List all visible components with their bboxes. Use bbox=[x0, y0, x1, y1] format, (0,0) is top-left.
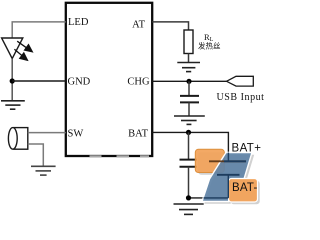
wire tint over logo bbox=[204, 153, 229, 198]
ground G5 (below battery) bbox=[174, 204, 204, 214]
node junction LED/GND bbox=[10, 78, 15, 83]
wire CHG pin to USB connector bbox=[152, 80, 226, 82]
node junction CHG/C1 bbox=[186, 79, 191, 84]
USB input connector J1 bbox=[227, 76, 254, 86]
wire node to capacitor C2 bbox=[188, 132, 190, 159]
watermark orange square 2 bbox=[229, 179, 258, 203]
ground G2 (below switch) bbox=[31, 166, 56, 175]
LED emission arrow 2 bbox=[14, 49, 27, 60]
svg-text:LED: LED bbox=[68, 17, 89, 28]
node junction BAT/C2 bbox=[186, 130, 191, 135]
IC box U1 bbox=[66, 3, 152, 156]
svg-text:GND: GND bbox=[68, 76, 91, 87]
capacitor C2 bbox=[180, 160, 198, 167]
battery plate tint over logo bbox=[209, 161, 246, 175]
svg-text:CHG: CHG bbox=[127, 76, 150, 87]
node junction C2/battery/ground bbox=[186, 195, 191, 200]
svg-text:BAT: BAT bbox=[128, 129, 148, 140]
ground G3 (below resistor) bbox=[177, 63, 200, 72]
svg-text:SW: SW bbox=[68, 129, 84, 140]
svg-text:USB Input: USB Input bbox=[217, 92, 265, 103]
resistor RL bbox=[184, 30, 193, 54]
wire switch lower terminal to ground bbox=[28, 144, 44, 166]
watermark logo shadow bbox=[198, 152, 260, 204]
wire capacitor C2 to lower node bbox=[188, 167, 190, 198]
wire battery bottom to lower node bbox=[189, 175, 229, 198]
battery BT1 top plate bbox=[209, 160, 246, 162]
watermark orange square 1 bbox=[195, 149, 224, 172]
wire capacitor C1 to ground bbox=[188, 102, 190, 116]
wire LED pin to LED anode bbox=[12, 22, 66, 38]
ground G4 (below C1) bbox=[174, 116, 205, 124]
svg-text:BAT-: BAT- bbox=[232, 182, 258, 194]
ground G1 (below LED) bbox=[1, 101, 25, 109]
wire BAT pin to battery bbox=[152, 132, 228, 161]
LED D1 triangle bbox=[2, 38, 23, 59]
wire gray dashes on box bottom edge bbox=[90, 155, 150, 157]
wire AT pin to resistor bbox=[152, 22, 188, 30]
capacitor C1 bbox=[180, 96, 199, 103]
wire node to capacitor C1 bbox=[188, 81, 190, 96]
wire resistor to ground bbox=[188, 54, 190, 63]
watermark blue Z bbox=[202, 153, 252, 202]
wire node to GND pin bbox=[12, 80, 66, 82]
LED emission arrow 1 bbox=[17, 41, 32, 52]
svg-text:AT: AT bbox=[132, 20, 145, 31]
wire switch to SW pin bbox=[28, 132, 66, 134]
battery BT1 bottom plate bbox=[217, 174, 240, 176]
switch S1 (button cylinder) bbox=[14, 128, 28, 150]
wire LED cathode down to node bbox=[11, 59, 13, 101]
svg-text:发热丝: 发热丝 bbox=[198, 41, 221, 51]
svg-text:BAT+: BAT+ bbox=[232, 143, 262, 155]
